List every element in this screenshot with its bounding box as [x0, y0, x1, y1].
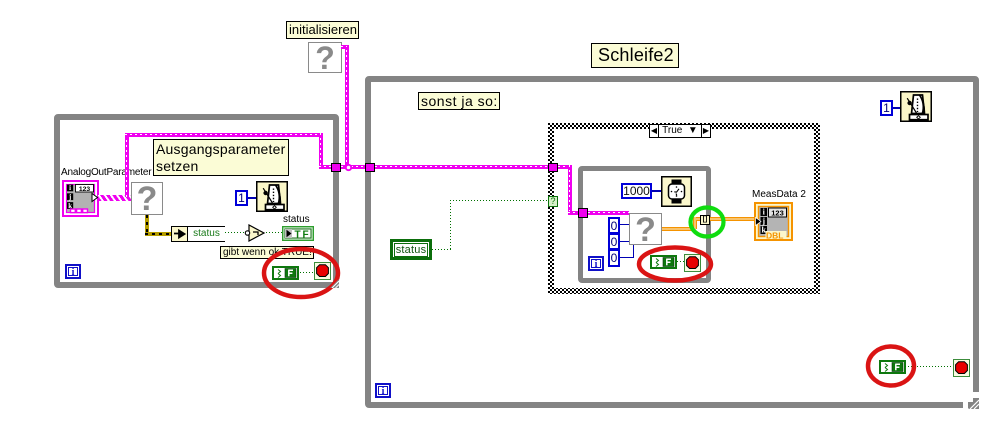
while loop (left) border — [54, 114, 339, 288]
annotation red ellipse around inner loop stop terminal — [634, 243, 716, 285]
label Schleife2 — [591, 43, 679, 68]
while loop (inner) border — [578, 166, 711, 283]
wait ms watch icon — [661, 176, 692, 207]
wire blue — [248, 197, 256, 199]
constant 0 (c) — [608, 249, 620, 267]
svg-text:j: j — [68, 194, 71, 201]
case selector label True — [649, 124, 711, 138]
svg-text:DBL: DBL — [766, 230, 783, 240]
wire pink branch vertical — [125, 135, 129, 197]
wire pink down right — [319, 133, 323, 166]
wire hatched cluster wire — [98, 195, 131, 201]
stop button terminal (inner) — [684, 254, 701, 272]
label AnalogOutParameter — [61, 167, 151, 178]
boolean constant F (Schleife2) — [879, 360, 906, 374]
svg-text:i: i — [69, 185, 71, 192]
annotation red ellipse around Schleife2 F constant — [863, 342, 919, 390]
indicator MeasData 2 — [754, 202, 793, 241]
label sonst ja so: — [418, 92, 500, 110]
wire pink inside Schleife2 — [375, 165, 548, 169]
constant 1 — [235, 190, 248, 206]
wire green dotted to TF — [266, 232, 282, 233]
label Ausgangsparameter setzen — [153, 139, 289, 176]
wire pink top horizontal — [125, 133, 323, 137]
tunnel into Schleife2 — [365, 163, 375, 172]
wire pink to subVI — [588, 211, 629, 215]
cluster constant AnalogOutParameter — [62, 180, 99, 217]
wires blue from constants — [620, 224, 629, 225]
wire pink to tunnel — [319, 165, 333, 169]
wire pink inside case — [558, 165, 572, 169]
stop button terminal (Schleife2) — [953, 359, 970, 377]
tunnel array on inner loop — [700, 215, 710, 225]
wire error cluster (dark yellow dashed) vertical — [145, 215, 149, 236]
annotation green circle around array tunnel — [686, 203, 728, 241]
while loop Schleife2 border — [365, 76, 979, 408]
wire pink from init down — [345, 45, 349, 167]
subVI U1 (?) — [131, 182, 163, 215]
svg-text:j: j — [761, 217, 765, 226]
indicator TF (status) — [282, 226, 314, 241]
case selector terminal ? — [548, 196, 558, 207]
svg-text:T: T — [295, 229, 301, 240]
unbundle node status — [171, 226, 225, 242]
svg-text:F: F — [303, 229, 309, 240]
iteration terminal i (inner) — [588, 256, 604, 271]
constant 0 (b) — [608, 233, 620, 250]
svg-text:123: 123 — [79, 186, 91, 193]
label gibt wenn ok TRUE! — [220, 246, 314, 259]
label initialisieren — [286, 21, 359, 39]
label status — [283, 214, 310, 225]
wait-multiple metronome icon (Schleife2) — [900, 91, 932, 122]
svg-text:123: 123 — [771, 208, 784, 217]
annotation red ellipse around left loop stop terminal — [258, 244, 344, 302]
wire green dotted — [905, 366, 953, 367]
boolean constant F — [272, 266, 299, 280]
subVI U3 (?) — [629, 213, 662, 245]
iteration terminal i — [65, 264, 81, 279]
resize grip Schleife2 corner — [972, 392, 979, 398]
constant 1000 — [621, 183, 652, 199]
constant 0 (a) — [608, 217, 620, 234]
NOT gate — [243, 224, 267, 242]
tunnel pink on inner loop — [578, 208, 588, 218]
resize notch left loop corner — [330, 279, 339, 288]
wire green dotted to NOT — [225, 232, 247, 233]
boolean constant F (inner) — [650, 255, 677, 269]
subVI U2 (?) — [308, 42, 342, 73]
wire green dotted — [677, 261, 685, 262]
constant 1 (top right) — [880, 100, 893, 116]
wire orange to MeasData2 — [710, 217, 754, 221]
junction circle — [344, 163, 353, 172]
wire green dotted to stop — [300, 272, 314, 273]
tunnel out of left loop — [331, 163, 341, 172]
local variable status — [390, 239, 432, 260]
case structure (True) — [548, 123, 820, 294]
wire error horizontal — [145, 232, 171, 236]
stop button terminal — [314, 262, 331, 280]
wire orange from subVI — [662, 227, 696, 231]
wire green dotted from status — [432, 249, 452, 250]
label MeasData 2 — [752, 189, 806, 200]
wire pink between loops — [341, 165, 365, 169]
wait-multiple metronome icon — [256, 181, 288, 212]
wire blue — [652, 190, 661, 192]
wire blue — [893, 107, 900, 109]
tunnel pink on case border — [548, 163, 558, 172]
iteration terminal i (Schleife2) — [375, 383, 391, 398]
